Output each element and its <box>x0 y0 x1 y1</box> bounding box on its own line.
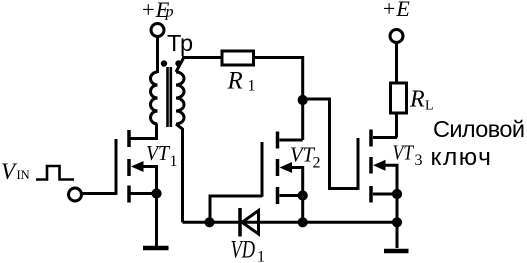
svg-text:Силовой: Силовой <box>433 116 524 142</box>
wire VT2 source to bottom bus <box>301 196 304 223</box>
svg-text:ключ: ключ <box>431 144 493 171</box>
label VT3 <box>393 141 423 170</box>
junction dot node D <box>392 217 402 227</box>
label +E <box>382 0 411 21</box>
ground under VT1 <box>143 246 169 251</box>
transformer T1 secondary winding <box>176 72 184 124</box>
terminal +E <box>390 30 403 43</box>
label RL <box>409 87 434 114</box>
svg-text:1: 1 <box>248 78 256 95</box>
label VD1 <box>231 237 266 263</box>
svg-text:VT: VT <box>393 141 415 165</box>
wire VT3 source to bottom bus end <box>396 194 399 222</box>
transistor VT3 <box>358 130 397 203</box>
transistor VT1 <box>116 124 157 203</box>
svg-text:R: R <box>227 68 243 95</box>
resistor R1 <box>222 51 254 65</box>
wire from +Ep to transformer primary <box>156 37 159 74</box>
svg-text:3: 3 <box>415 152 423 169</box>
junction dot VT1 source <box>151 188 161 198</box>
terminal +Ep <box>151 24 164 37</box>
diode VD1 <box>240 208 259 237</box>
wire secondary top to R1 <box>176 58 222 73</box>
svg-text:L: L <box>425 99 434 114</box>
resistor RL <box>391 83 407 113</box>
label VT2 <box>290 143 321 172</box>
phasing dot secondary <box>175 60 181 66</box>
svg-text:V: V <box>1 159 18 184</box>
transistor VT2 <box>262 132 303 205</box>
svg-text:Тр: Тр <box>167 30 193 56</box>
svg-text:IN: IN <box>17 168 30 182</box>
wire node D to ground <box>396 222 399 248</box>
junction dot VT2 source <box>298 190 308 200</box>
transformer core <box>168 67 171 127</box>
label R1 <box>227 68 256 95</box>
wire VIN to VT1 gate <box>82 192 117 195</box>
label VIN <box>1 159 30 184</box>
terminal VIN <box>69 188 82 201</box>
wire secondary bottom to bottom bus <box>176 124 183 222</box>
bottom bus wire <box>183 221 398 224</box>
wire VT1 source to ground <box>155 194 158 248</box>
svg-text:+E: +E <box>382 0 411 21</box>
wire +E to RL <box>395 43 398 84</box>
phasing dot primary <box>161 60 167 66</box>
transformer T1 primary winding <box>151 72 158 124</box>
svg-text:p: p <box>165 4 174 21</box>
svg-text:VT: VT <box>146 141 171 165</box>
wire node A to VT3 gate <box>303 99 358 189</box>
svg-text:R: R <box>409 87 425 113</box>
svg-text:2: 2 <box>313 155 321 172</box>
label VT1 <box>146 141 178 170</box>
input pulse symbol <box>36 166 74 180</box>
svg-text:VD: VD <box>231 237 256 263</box>
svg-text:1: 1 <box>257 249 265 263</box>
label Tp <box>167 30 193 56</box>
label Silovoy klyuch <box>431 116 525 171</box>
junction dot node B <box>204 217 214 227</box>
svg-text:1: 1 <box>170 153 178 170</box>
label +Ep <box>141 0 174 22</box>
wire RL to VT3 drain <box>395 113 398 138</box>
junction dot node C <box>298 217 308 227</box>
node A junction dot <box>298 95 308 105</box>
ground under VT3 <box>384 249 409 254</box>
wire R1 to node A <box>254 58 303 141</box>
wire node B to VT2 gate <box>210 196 262 222</box>
junction dot VT3 source <box>392 189 402 199</box>
